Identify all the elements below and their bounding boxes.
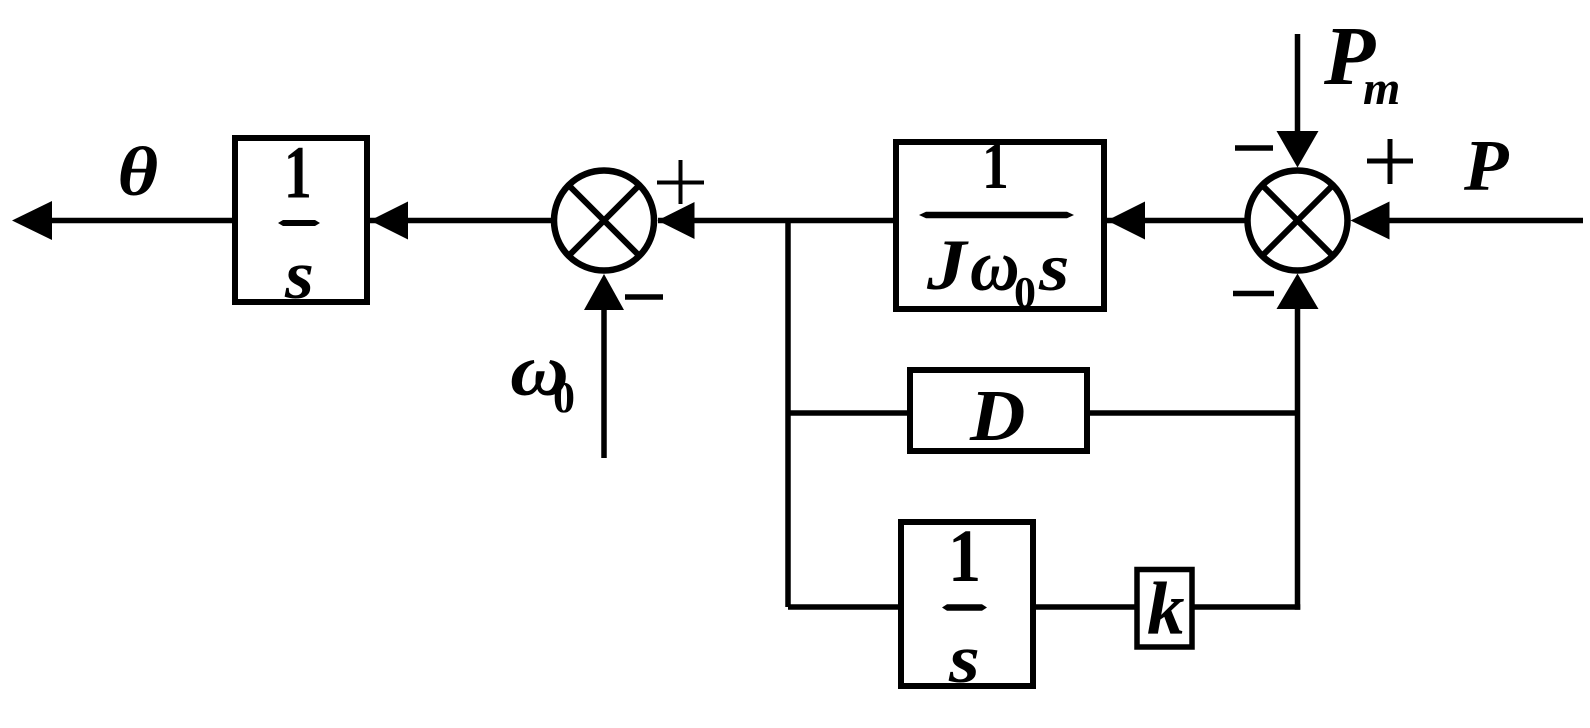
arrowhead into U1 bbox=[370, 202, 408, 240]
arrowhead: theta output bbox=[12, 201, 52, 240]
svg-text:θ: θ bbox=[118, 134, 159, 211]
svg-text:D: D bbox=[969, 376, 1025, 457]
svg-text:1: 1 bbox=[284, 132, 312, 215]
wire: P input line bbox=[1381, 218, 1583, 224]
wire: block D to feedback vertical bbox=[1087, 410, 1298, 416]
wire: node A to block D bbox=[788, 410, 910, 416]
block 1/s (integrator U3) bbox=[901, 522, 1033, 686]
svg-text:J: J bbox=[926, 226, 969, 305]
minus sign at S1 bottom input bbox=[625, 294, 663, 300]
block 1/(J w0 s) (U2) bbox=[896, 142, 1104, 309]
wire: sum1 to U1 bbox=[369, 218, 553, 224]
arrowhead omega0 into S1 bottom bbox=[584, 274, 624, 310]
svg-text:s: s bbox=[948, 622, 980, 698]
block k (gain) bbox=[1137, 570, 1192, 648]
svg-text:P: P bbox=[1463, 125, 1510, 206]
fraction bar of U1 bbox=[278, 220, 320, 226]
svg-text:s: s bbox=[284, 237, 314, 314]
plus sign at S2 right input bbox=[1367, 159, 1413, 164]
arrowhead feedback into S2 bottom bbox=[1277, 274, 1319, 310]
minus sign at S2 bottom input bbox=[1233, 291, 1274, 297]
fraction bar of U2 bbox=[919, 212, 1074, 218]
wire: block k to feedback corner bbox=[1192, 604, 1300, 610]
summing junction S2 bbox=[1248, 171, 1348, 271]
summing junction S1 bbox=[554, 171, 654, 271]
wire: theta output line bbox=[44, 218, 235, 224]
svg-text:s: s bbox=[1038, 230, 1069, 305]
wire: node A to S1 bbox=[658, 218, 896, 224]
minus sign at S2 top input bbox=[1235, 145, 1273, 151]
plus sign at S1 right input bbox=[657, 181, 704, 185]
wire: omega0 input arrow bbox=[601, 290, 607, 458]
wire: Pm input bbox=[1295, 34, 1301, 140]
wire: U3 to block k bbox=[1033, 604, 1137, 610]
arrowhead P into S2 right bbox=[1351, 202, 1390, 240]
arrowhead Pm into S2 top bbox=[1277, 131, 1319, 168]
block D (damping) bbox=[910, 370, 1087, 451]
arrowhead into S1 right bbox=[658, 202, 695, 239]
wire: feedback vertical into S2 bottom bbox=[1295, 290, 1301, 610]
wire: node A to block 1/s (U3) bbox=[788, 604, 901, 610]
svg-text:1: 1 bbox=[948, 515, 981, 598]
node A branch vertical wire bbox=[785, 218, 791, 607]
svg-text:0: 0 bbox=[553, 373, 575, 422]
fraction bar of U3 bbox=[942, 604, 987, 611]
svg-text:k: k bbox=[1147, 568, 1185, 651]
svg-text:0: 0 bbox=[1014, 268, 1036, 317]
svg-text:ω: ω bbox=[970, 226, 1020, 306]
wire: S2 to U2 bbox=[1106, 218, 1246, 224]
cross of S2 bbox=[1262, 185, 1333, 256]
block 1/s (integrator U1) bbox=[235, 138, 367, 302]
svg-text:m: m bbox=[1363, 62, 1400, 115]
arrowhead into U2 bbox=[1107, 202, 1145, 240]
svg-text:1: 1 bbox=[982, 129, 1009, 203]
cross of S1 bbox=[569, 185, 640, 256]
